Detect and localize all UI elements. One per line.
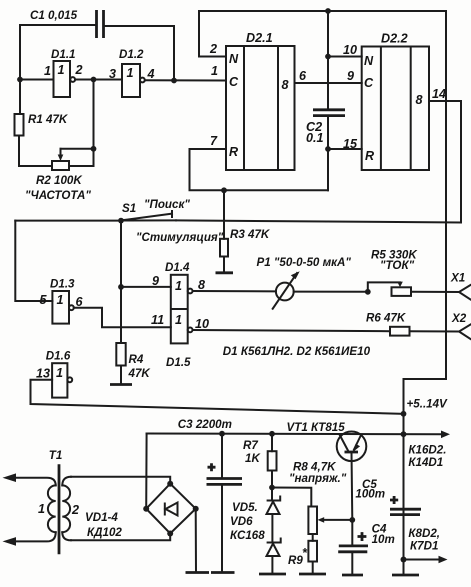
svg-text:D2.2: D2.2 <box>381 32 408 46</box>
svg-text:1: 1 <box>175 313 182 327</box>
svg-text:100m: 100m <box>355 488 385 501</box>
svg-text:10: 10 <box>343 43 357 57</box>
svg-text:R7: R7 <box>243 439 258 452</box>
svg-text:6: 6 <box>299 69 307 83</box>
svg-text:D1.4: D1.4 <box>165 261 190 274</box>
svg-text:R: R <box>229 145 239 159</box>
svg-text:R: R <box>365 149 375 163</box>
svg-text:D1.1: D1.1 <box>51 48 76 61</box>
svg-text:P1 "50-0-50 мкА": P1 "50-0-50 мкА" <box>257 256 352 269</box>
svg-text:К8D2,: К8D2, <box>408 527 440 540</box>
svg-text:2: 2 <box>209 42 217 56</box>
svg-text:VD6: VD6 <box>230 515 253 528</box>
svg-text:C: C <box>229 75 239 89</box>
svg-text:N: N <box>364 54 374 68</box>
svg-text:D1 К561ЛН2. D2 К561ИЕ10: D1 К561ЛН2. D2 К561ИЕ10 <box>223 345 371 358</box>
svg-text:К14D1: К14D1 <box>408 456 443 469</box>
svg-text:R4: R4 <box>129 353 144 366</box>
svg-text:1: 1 <box>175 279 182 293</box>
svg-text:11: 11 <box>151 313 164 327</box>
svg-text:13: 13 <box>36 367 50 381</box>
svg-text:4: 4 <box>147 67 155 81</box>
svg-text:T1: T1 <box>49 449 63 462</box>
svg-text:14: 14 <box>432 87 446 101</box>
svg-text:"Поиск": "Поиск" <box>144 198 190 211</box>
svg-text:VD5.: VD5. <box>232 501 258 514</box>
svg-text:R6 47K: R6 47K <box>366 312 407 325</box>
svg-text:10: 10 <box>195 317 209 331</box>
svg-text:9: 9 <box>347 69 354 83</box>
svg-text:47K: 47K <box>128 367 152 380</box>
svg-text:X2: X2 <box>451 312 467 325</box>
svg-text:N: N <box>229 52 239 66</box>
svg-text:R3 47K: R3 47K <box>230 228 271 241</box>
svg-text:8: 8 <box>282 78 289 92</box>
svg-text:2: 2 <box>75 63 83 77</box>
svg-text:10m: 10m <box>372 533 395 546</box>
svg-text:2: 2 <box>71 503 79 517</box>
svg-text:R2 100K: R2 100K <box>36 174 83 187</box>
svg-text:1: 1 <box>44 64 51 78</box>
svg-text:КС168: КС168 <box>230 529 265 542</box>
svg-text:7: 7 <box>210 134 218 148</box>
svg-text:D1.5: D1.5 <box>166 356 191 369</box>
svg-text:X1: X1 <box>450 272 465 285</box>
svg-text:К7D1: К7D1 <box>410 540 438 553</box>
svg-text:VD1-4: VD1-4 <box>85 511 118 524</box>
svg-text:1K: 1K <box>245 452 261 465</box>
svg-text:D1.2: D1.2 <box>119 48 144 61</box>
svg-text:1: 1 <box>211 64 218 78</box>
svg-text:9: 9 <box>152 274 159 288</box>
svg-text:КД102: КД102 <box>87 526 122 539</box>
svg-text:D1.6: D1.6 <box>46 350 71 363</box>
svg-text:8: 8 <box>416 93 423 107</box>
svg-text:К16D2.: К16D2. <box>408 444 446 457</box>
svg-text:VT1 КТ815: VT1 КТ815 <box>287 421 346 434</box>
svg-text:0.1: 0.1 <box>306 131 324 145</box>
svg-text:1: 1 <box>58 63 65 77</box>
svg-text:1: 1 <box>38 502 45 516</box>
svg-text:C: C <box>364 76 374 90</box>
svg-text:S1: S1 <box>122 202 136 215</box>
svg-text:1: 1 <box>127 66 134 80</box>
svg-text:1: 1 <box>56 366 63 380</box>
svg-text:+5..14V: +5..14V <box>407 398 449 411</box>
svg-text:8: 8 <box>198 278 205 292</box>
svg-text:3: 3 <box>109 67 116 81</box>
svg-text:D2.1: D2.1 <box>246 31 273 45</box>
svg-text:C1 0,015: C1 0,015 <box>30 9 78 22</box>
svg-text:"напряж.": "напряж." <box>289 472 347 485</box>
svg-text:C3 2200m: C3 2200m <box>178 418 232 431</box>
svg-text:R1 47K: R1 47K <box>28 113 69 126</box>
svg-text:5: 5 <box>40 293 48 307</box>
svg-text:1: 1 <box>57 293 64 307</box>
svg-text:"Стимуляция": "Стимуляция" <box>136 231 224 244</box>
svg-text:"ЧАСТОТА": "ЧАСТОТА" <box>25 189 91 202</box>
svg-text:"ТОК": "ТОК" <box>380 259 415 272</box>
svg-text:D1.3: D1.3 <box>50 278 75 291</box>
